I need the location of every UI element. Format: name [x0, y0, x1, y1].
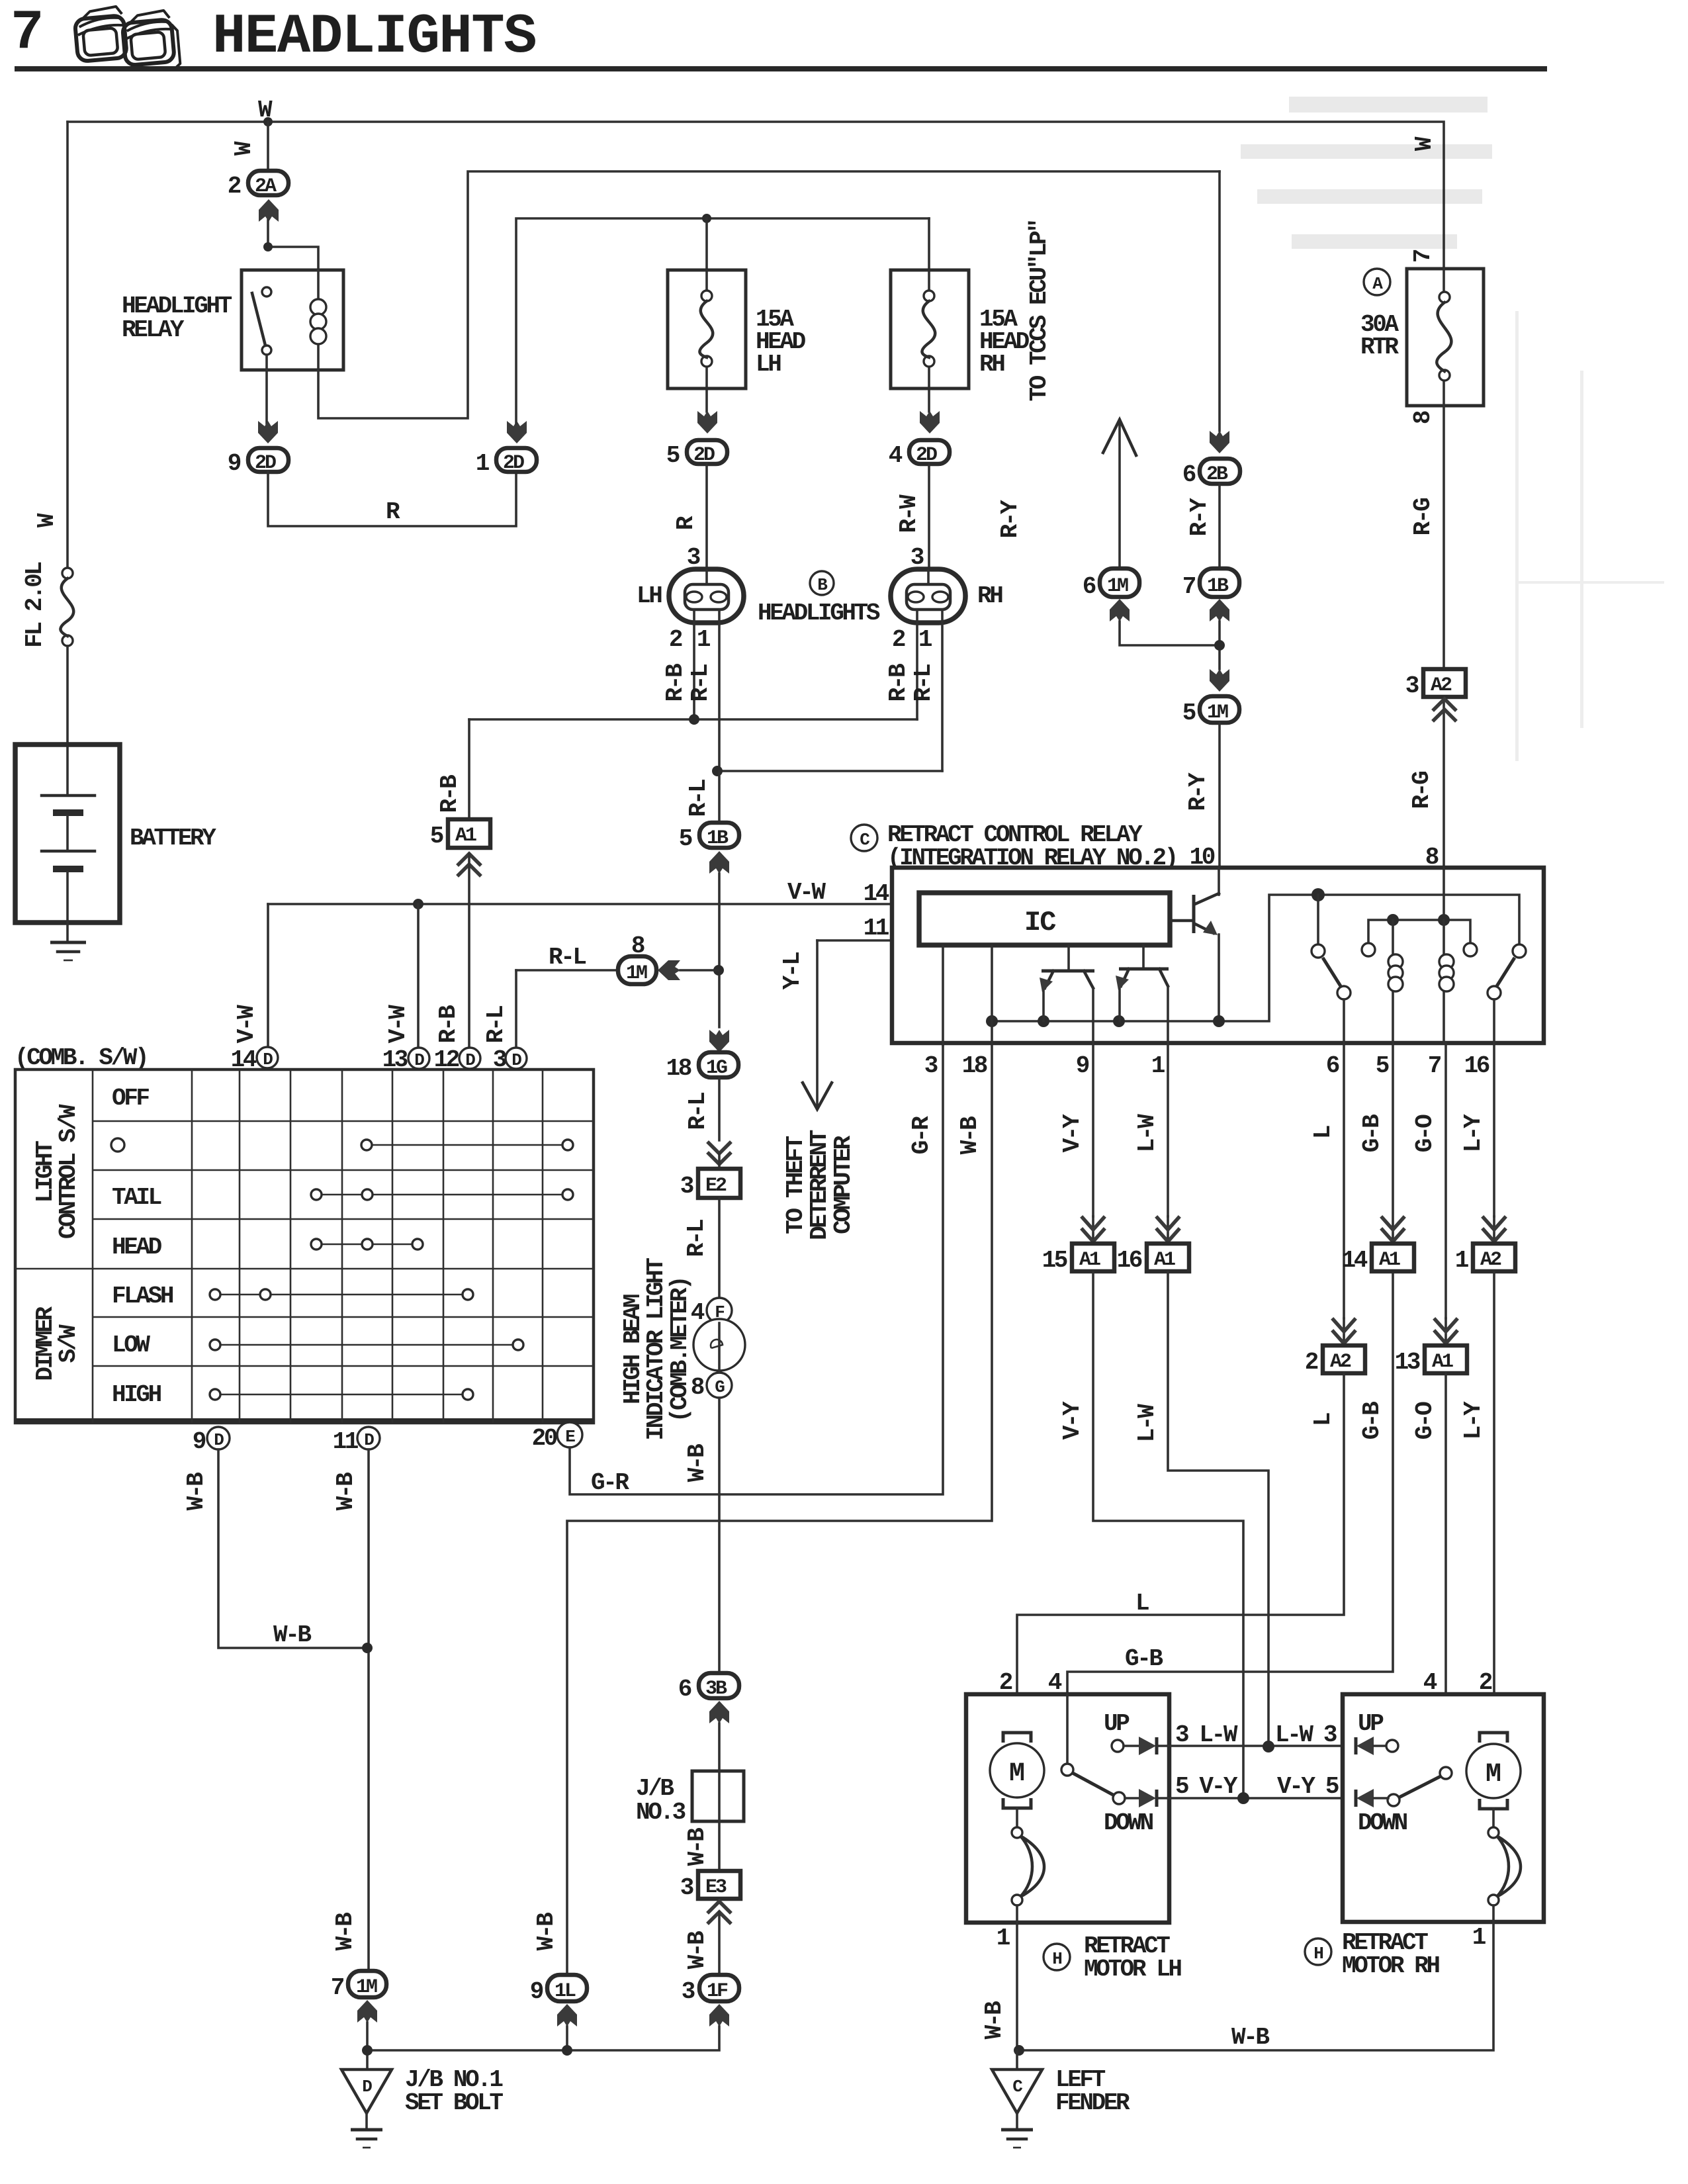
- svg-text:D: D: [214, 1430, 224, 1450]
- svg-text:4: 4: [1048, 1669, 1062, 1696]
- svg-text:3: 3: [682, 1978, 695, 2005]
- svg-text:W-B: W-B: [956, 1116, 983, 1154]
- svg-text:4: 4: [1423, 1669, 1437, 1696]
- svg-text:A2: A2: [1480, 1249, 1501, 1271]
- svg-text:3: 3: [680, 1173, 693, 1200]
- svg-text:V-W: V-W: [384, 1005, 412, 1043]
- svg-text:5 V-Y: 5 V-Y: [1175, 1773, 1238, 1800]
- svg-text:16: 16: [1464, 1052, 1489, 1079]
- svg-text:6: 6: [1182, 461, 1196, 488]
- svg-text:18: 18: [666, 1055, 691, 1082]
- svg-text:R-B: R-B: [436, 775, 463, 813]
- svg-text:R-L: R-L: [685, 780, 712, 817]
- svg-text:UP: UP: [1104, 1710, 1130, 1737]
- svg-text:INDICATOR LIGHT: INDICATOR LIGHT: [643, 1258, 670, 1441]
- svg-text:1L: 1L: [555, 1980, 576, 2003]
- svg-text:E: E: [565, 1427, 575, 1447]
- svg-text:11: 11: [333, 1428, 359, 1455]
- svg-text:FLASH: FLASH: [112, 1283, 173, 1310]
- svg-text:1: 1: [1472, 1924, 1486, 1951]
- svg-text:S/W: S/W: [55, 1324, 82, 1363]
- svg-text:L: L: [1310, 1126, 1337, 1139]
- svg-text:18: 18: [962, 1052, 987, 1079]
- svg-text:G-B: G-B: [1358, 1115, 1386, 1152]
- svg-text:7: 7: [1409, 250, 1437, 263]
- svg-text:2D: 2D: [693, 444, 715, 467]
- svg-text:LH: LH: [756, 351, 781, 378]
- svg-text:A1: A1: [1079, 1249, 1100, 1271]
- svg-text:OFF: OFF: [112, 1085, 149, 1112]
- svg-text:R-L: R-L: [687, 664, 714, 702]
- svg-text:5: 5: [666, 442, 680, 469]
- svg-text:D: D: [362, 2077, 372, 2097]
- svg-text:5: 5: [1182, 700, 1196, 727]
- svg-text:6: 6: [1083, 573, 1096, 600]
- svg-text:V-Y: V-Y: [1059, 1114, 1086, 1152]
- svg-text:11: 11: [864, 915, 889, 942]
- svg-text:2B: 2B: [1206, 463, 1228, 486]
- svg-text:L-W 3: L-W 3: [1275, 1721, 1337, 1749]
- svg-text:W-B: W-B: [533, 1913, 560, 1950]
- svg-text:R-Y: R-Y: [997, 500, 1024, 538]
- svg-text:G-B: G-B: [1358, 1402, 1386, 1439]
- svg-text:13: 13: [382, 1046, 408, 1073]
- svg-text:V-Y: V-Y: [1059, 1401, 1086, 1439]
- svg-text:HEADLIGHTS: HEADLIGHTS: [212, 6, 536, 69]
- svg-text:MOTOR LH: MOTOR LH: [1084, 1956, 1181, 1983]
- svg-text:8: 8: [631, 933, 644, 960]
- svg-text:L-W: L-W: [1133, 1404, 1161, 1442]
- svg-text:TO TCCS ECU"LP": TO TCCS ECU"LP": [1026, 220, 1053, 401]
- svg-text:W-B: W-B: [273, 1621, 311, 1649]
- svg-text:D: D: [263, 1050, 273, 1069]
- svg-text:9: 9: [530, 1978, 543, 2005]
- svg-text:Y-L: Y-L: [779, 952, 806, 989]
- svg-text:R-L: R-L: [910, 664, 937, 702]
- svg-text:2: 2: [669, 626, 682, 653]
- svg-text:9: 9: [228, 450, 241, 477]
- svg-text:G-B: G-B: [1125, 1645, 1163, 1672]
- svg-text:W-B: W-B: [981, 2001, 1008, 2039]
- svg-text:1M: 1M: [356, 1976, 377, 1999]
- svg-text:H: H: [1052, 1949, 1061, 1969]
- svg-text:R-Y: R-Y: [1186, 498, 1213, 536]
- svg-text:14: 14: [1342, 1247, 1368, 1274]
- svg-text:FENDER: FENDER: [1055, 2089, 1130, 2116]
- svg-text:7: 7: [1182, 573, 1196, 600]
- svg-text:A2: A2: [1431, 674, 1452, 697]
- svg-text:2D: 2D: [916, 444, 937, 467]
- svg-text:W-B: W-B: [684, 1931, 711, 1969]
- svg-text:(COMB.METER): (COMB.METER): [666, 1278, 693, 1422]
- svg-text:1: 1: [1151, 1052, 1165, 1079]
- svg-text:9: 9: [1076, 1052, 1089, 1079]
- svg-text:RTR: RTR: [1360, 334, 1399, 361]
- svg-text:A1: A1: [1432, 1351, 1453, 1373]
- svg-text:1M: 1M: [626, 962, 647, 985]
- svg-text:UP: UP: [1358, 1710, 1384, 1737]
- svg-text:G: G: [715, 1377, 725, 1397]
- svg-text:W-B: W-B: [332, 1913, 359, 1950]
- svg-text:1B: 1B: [1207, 575, 1229, 598]
- svg-text:W-B: W-B: [684, 1828, 711, 1866]
- svg-text:3: 3: [493, 1046, 506, 1073]
- svg-text:MOTOR RH: MOTOR RH: [1342, 1952, 1439, 1979]
- svg-text:R-Y: R-Y: [1184, 772, 1212, 811]
- svg-text:J/B: J/B: [636, 1775, 674, 1802]
- svg-text:E3: E3: [705, 1876, 727, 1899]
- svg-text:L-Y: L-Y: [1460, 1114, 1487, 1152]
- svg-text:14: 14: [864, 880, 889, 907]
- svg-text:(COMB. S/W): (COMB. S/W): [15, 1044, 147, 1071]
- svg-text:COMPUTER: COMPUTER: [830, 1135, 857, 1234]
- svg-text:IC: IC: [1024, 907, 1056, 938]
- svg-text:DOWN: DOWN: [1358, 1809, 1407, 1837]
- svg-text:5: 5: [679, 825, 692, 852]
- svg-text:LH: LH: [637, 582, 662, 610]
- svg-text:A: A: [1372, 274, 1383, 294]
- svg-text:3B: 3B: [705, 1678, 727, 1700]
- svg-text:NO.3: NO.3: [636, 1799, 686, 1826]
- svg-text:HIGH: HIGH: [112, 1381, 161, 1408]
- svg-text:3: 3: [1405, 672, 1419, 700]
- svg-text:RELAY: RELAY: [122, 316, 185, 343]
- svg-text:D: D: [414, 1050, 424, 1070]
- svg-text:2D: 2D: [503, 452, 524, 475]
- svg-text:L: L: [1135, 1590, 1149, 1617]
- svg-text:R-L: R-L: [549, 944, 586, 971]
- svg-text:R-B: R-B: [885, 664, 912, 702]
- svg-text:R-L: R-L: [683, 1220, 710, 1257]
- svg-text:3: 3: [924, 1052, 938, 1079]
- svg-text:1: 1: [1455, 1247, 1469, 1274]
- svg-text:13: 13: [1395, 1349, 1420, 1376]
- svg-text:R-W: R-W: [895, 494, 922, 533]
- svg-text:RH: RH: [977, 582, 1002, 610]
- svg-text:6: 6: [1326, 1052, 1339, 1079]
- svg-text:A1: A1: [455, 825, 476, 847]
- svg-text:15: 15: [1042, 1247, 1067, 1274]
- svg-text:HEADLIGHT: HEADLIGHT: [122, 293, 232, 320]
- svg-text:H: H: [1313, 1944, 1323, 1964]
- svg-text:G-R: G-R: [908, 1116, 935, 1154]
- svg-text:1: 1: [476, 450, 490, 477]
- svg-text:2: 2: [1305, 1349, 1318, 1376]
- svg-text:16: 16: [1117, 1247, 1142, 1274]
- svg-text:5: 5: [1376, 1052, 1389, 1079]
- svg-text:HEAD: HEAD: [112, 1234, 162, 1261]
- svg-text:2D: 2D: [255, 452, 276, 475]
- svg-text:M: M: [1009, 1759, 1025, 1789]
- svg-text:TAIL: TAIL: [112, 1184, 161, 1211]
- svg-text:G-R: G-R: [591, 1469, 629, 1496]
- svg-text:20: 20: [532, 1425, 557, 1452]
- svg-text:A2: A2: [1330, 1351, 1351, 1373]
- svg-text:DOWN: DOWN: [1104, 1809, 1153, 1837]
- svg-text:2A: 2A: [255, 175, 277, 198]
- svg-text:2: 2: [999, 1669, 1012, 1696]
- svg-text:2: 2: [892, 626, 905, 653]
- svg-text:8: 8: [1409, 411, 1437, 424]
- svg-text:R-L: R-L: [482, 1006, 510, 1043]
- svg-text:7: 7: [1428, 1052, 1441, 1079]
- svg-text:BATTERY: BATTERY: [130, 825, 216, 852]
- svg-text:R-G: R-G: [1409, 498, 1437, 535]
- svg-text:B: B: [817, 575, 828, 595]
- svg-text:R-G: R-G: [1408, 772, 1435, 809]
- svg-text:G-O: G-O: [1411, 1115, 1439, 1152]
- svg-text:A1: A1: [1154, 1249, 1175, 1271]
- svg-text:4: 4: [889, 442, 903, 469]
- svg-text:1F: 1F: [707, 1980, 728, 2003]
- svg-text:W-B: W-B: [684, 1444, 711, 1482]
- svg-text:L-W: L-W: [1133, 1114, 1161, 1152]
- svg-text:D: D: [465, 1050, 475, 1070]
- svg-text:1: 1: [997, 1925, 1010, 1952]
- svg-text:9: 9: [193, 1428, 206, 1455]
- svg-text:14: 14: [231, 1046, 257, 1073]
- svg-text:FL 2.0L: FL 2.0L: [21, 562, 48, 647]
- svg-text:TO THEFT: TO THEFT: [782, 1136, 809, 1234]
- svg-text:1M: 1M: [1207, 702, 1228, 724]
- svg-text:6: 6: [678, 1676, 691, 1703]
- svg-text:2: 2: [1479, 1669, 1492, 1696]
- svg-text:W-B: W-B: [332, 1473, 359, 1510]
- svg-text:1: 1: [697, 626, 711, 653]
- svg-text:SET BOLT: SET BOLT: [405, 2089, 503, 2116]
- svg-text:W-B: W-B: [1231, 2024, 1269, 2051]
- svg-text:L-Y: L-Y: [1460, 1401, 1487, 1439]
- svg-text:HEADLIGHTS: HEADLIGHTS: [758, 600, 880, 627]
- svg-text:1G: 1G: [706, 1057, 727, 1079]
- svg-text:W-B: W-B: [183, 1473, 210, 1510]
- svg-text:L: L: [1310, 1413, 1337, 1426]
- svg-text:DETERRENT: DETERRENT: [806, 1130, 833, 1240]
- svg-text:A1: A1: [1379, 1249, 1400, 1271]
- svg-text:C: C: [1012, 2077, 1022, 2097]
- svg-text:M: M: [1486, 1760, 1501, 1790]
- svg-text:7: 7: [11, 2, 44, 65]
- svg-text:CONTROL S/W: CONTROL S/W: [55, 1104, 82, 1239]
- svg-text:V-W: V-W: [233, 1005, 260, 1043]
- svg-text:LOW: LOW: [112, 1332, 150, 1359]
- svg-text:G-O: G-O: [1411, 1402, 1439, 1439]
- svg-text:3: 3: [680, 1874, 693, 1901]
- svg-text:C: C: [860, 830, 869, 850]
- svg-text:V-W: V-W: [787, 879, 826, 906]
- svg-text:2: 2: [228, 173, 241, 200]
- svg-text:7: 7: [331, 1974, 344, 2001]
- svg-text:12: 12: [434, 1046, 459, 1073]
- svg-text:R-B: R-B: [435, 1005, 462, 1043]
- svg-text:E2: E2: [705, 1175, 727, 1197]
- svg-text:D: D: [364, 1430, 374, 1450]
- svg-text:R-L: R-L: [684, 1093, 711, 1130]
- svg-text:D: D: [511, 1050, 521, 1070]
- svg-text:1: 1: [918, 626, 932, 653]
- svg-text:5: 5: [430, 823, 443, 850]
- svg-text:1B: 1B: [707, 827, 729, 850]
- svg-text:3 L-W: 3 L-W: [1175, 1721, 1238, 1749]
- svg-text:1M: 1M: [1107, 575, 1128, 598]
- svg-text:V-Y 5: V-Y 5: [1277, 1773, 1339, 1800]
- svg-text:R-B: R-B: [662, 664, 689, 702]
- svg-text:RH: RH: [979, 351, 1004, 378]
